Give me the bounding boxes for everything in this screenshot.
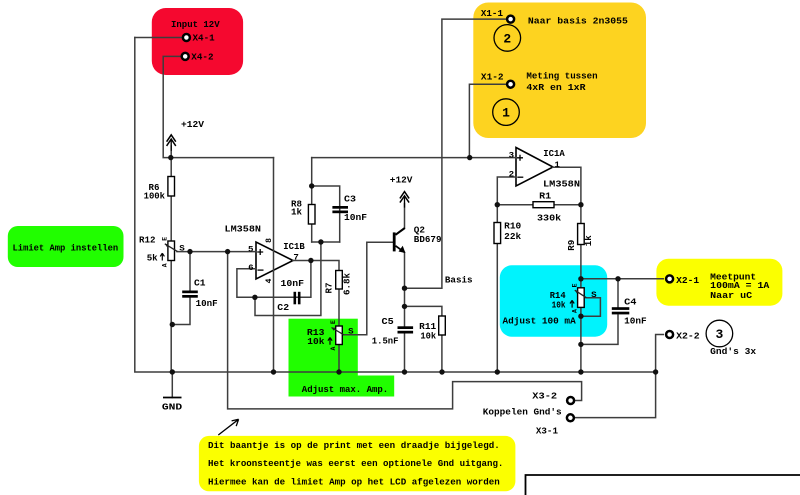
svg-text:A: A (571, 309, 578, 313)
svg-text:Koppelen Gnd's: Koppelen Gnd's (483, 407, 562, 418)
svg-text:3: 3 (715, 327, 723, 342)
svg-text:10nF: 10nF (344, 212, 367, 223)
svg-text:10k: 10k (552, 300, 566, 311)
svg-text:10k: 10k (307, 336, 325, 347)
svg-text:4: 4 (265, 278, 274, 283)
svg-text:10nF: 10nF (196, 298, 218, 309)
svg-text:R12: R12 (139, 235, 156, 246)
svg-text:X2-2: X2-2 (676, 331, 700, 342)
svg-text:IC1B: IC1B (283, 241, 305, 252)
svg-text:X2-1: X2-1 (676, 275, 699, 286)
svg-text:Basis: Basis (445, 275, 473, 286)
svg-text:X3-1: X3-1 (536, 426, 558, 437)
svg-text:A: A (330, 346, 337, 350)
svg-text:330k: 330k (537, 213, 562, 224)
svg-text:R9: R9 (566, 239, 577, 250)
svg-text:C3: C3 (344, 194, 356, 205)
svg-text:C5: C5 (382, 316, 395, 327)
svg-text:5: 5 (248, 246, 254, 255)
svg-text:+12V: +12V (181, 119, 204, 130)
svg-text:22k: 22k (504, 231, 521, 242)
svg-text:5k: 5k (147, 253, 158, 264)
svg-text:S: S (591, 291, 597, 300)
svg-text:Het kroonsteentje was eerst ee: Het kroonsteentje was eerst een optionel… (208, 458, 503, 469)
svg-text:1k: 1k (583, 235, 594, 246)
svg-text:3: 3 (509, 152, 515, 161)
svg-text:A: A (162, 263, 169, 267)
svg-text:Naar basis 2n3055: Naar basis 2n3055 (528, 16, 628, 27)
svg-text:4xR en 1xR: 4xR en 1xR (526, 82, 585, 93)
svg-text:10nF: 10nF (624, 316, 647, 327)
svg-text:Dit baantje is op de print met: Dit baantje is op de print met een draad… (208, 440, 500, 451)
svg-text:E: E (571, 283, 578, 287)
svg-text:C4: C4 (624, 297, 637, 308)
svg-text:2: 2 (503, 32, 511, 47)
svg-text:X4-2: X4-2 (191, 52, 214, 63)
svg-text:6.8k: 6.8k (342, 273, 353, 295)
svg-text:BD679: BD679 (414, 234, 442, 245)
svg-text:10k: 10k (420, 331, 436, 342)
svg-text:S: S (179, 245, 185, 254)
svg-text:1k: 1k (291, 207, 302, 218)
svg-text:IC1A: IC1A (543, 148, 565, 159)
svg-text:Adjust 100 mA: Adjust 100 mA (503, 316, 577, 327)
svg-text:Meting tussen: Meting tussen (526, 71, 598, 82)
svg-text:E: E (162, 237, 169, 241)
svg-text:Adjust max. Amp.: Adjust max. Amp. (302, 384, 388, 395)
svg-text:100k: 100k (144, 191, 166, 202)
svg-text:X1-1: X1-1 (481, 8, 503, 19)
svg-text:10nF: 10nF (281, 278, 305, 289)
svg-text:Limiet Amp instellen: Limiet Amp instellen (13, 243, 119, 254)
svg-text:LM358N: LM358N (543, 179, 580, 190)
svg-text:6: 6 (248, 264, 254, 273)
svg-text:R1: R1 (539, 191, 551, 202)
svg-text:Input 12V: Input 12V (171, 19, 220, 30)
svg-text:Gnd's 3x: Gnd's 3x (710, 346, 756, 357)
svg-text:2: 2 (509, 171, 515, 180)
svg-text:X4-1: X4-1 (193, 33, 216, 44)
svg-text:C2: C2 (277, 302, 289, 313)
svg-text:1: 1 (554, 161, 560, 170)
svg-text:7: 7 (293, 254, 299, 263)
svg-text:Naar uC: Naar uC (710, 290, 752, 301)
svg-text:LM358N: LM358N (225, 224, 262, 235)
svg-text:1.5nF: 1.5nF (372, 336, 399, 347)
svg-text:X3-2: X3-2 (532, 391, 557, 402)
svg-text:R10: R10 (504, 221, 521, 232)
svg-text:GND: GND (162, 402, 183, 413)
svg-text:C1: C1 (194, 278, 206, 289)
svg-text:S: S (348, 327, 354, 336)
svg-text:R7: R7 (324, 283, 335, 294)
svg-text:8: 8 (265, 238, 274, 243)
svg-text:X1-2: X1-2 (481, 72, 504, 83)
svg-text:Hiermee kan de limiet Amp op h: Hiermee kan de limiet Amp op het LCD afg… (208, 477, 500, 488)
svg-text:+12V: +12V (390, 175, 413, 186)
svg-text:1: 1 (502, 106, 510, 121)
svg-text:E: E (330, 320, 337, 324)
